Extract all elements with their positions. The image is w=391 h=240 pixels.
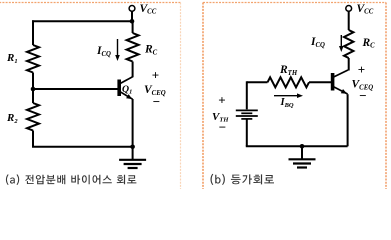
wire: bottom rail (b) [246, 145, 348, 147]
battery VTH [236, 110, 258, 146]
svg-text:+: + [152, 67, 159, 82]
terminal VCC (a) [129, 5, 135, 19]
label minus VTH [219, 119, 226, 134]
label ICQ (a) [96, 45, 111, 58]
label RC (a) [144, 44, 158, 57]
wire: R1 to node B [32, 73, 34, 90]
label VCC (a) [140, 3, 157, 16]
label plus VTH [218, 93, 225, 108]
svg-text:−: − [219, 119, 226, 134]
svg-text:−: − [359, 88, 366, 103]
transistor Q1 [119, 77, 132, 99]
resistor R2 [27, 103, 39, 131]
wire: R1 top lead [32, 20, 34, 45]
svg-text:+: + [218, 93, 225, 108]
node: VCC junction (a) [130, 19, 135, 24]
wire: base wire (b) [309, 81, 331, 83]
wire: emitter to ground (a) [132, 99, 134, 147]
ground (a) [119, 147, 146, 168]
transistor (b) [333, 70, 348, 94]
label ICQ (b) [310, 36, 325, 49]
wire: collector to RC (a) [132, 62, 134, 78]
caption (a) [6, 174, 137, 185]
label minus (a) [153, 94, 160, 109]
wire: node B to R2 [32, 89, 34, 103]
wire: VTH to RTH [247, 81, 268, 109]
node: emitter-ground junction (a) [130, 145, 135, 150]
label plus (a) [152, 67, 159, 82]
resistor RC (a) [127, 33, 139, 62]
wire: R2 bottom to ground rail [32, 131, 133, 147]
label VCEQ (a) [144, 84, 166, 97]
label R1 [6, 52, 18, 65]
label VCC (b) [357, 3, 374, 16]
wire: base wire (a) [33, 88, 118, 90]
caption (b) [211, 174, 275, 185]
label Q1 [122, 84, 132, 96]
node B: divider junction [31, 87, 36, 92]
wire: top rail (a) [32, 20, 132, 22]
ground (b) [289, 146, 316, 167]
label plus (b) [358, 62, 365, 77]
label RC (b) [362, 37, 376, 50]
wire: RC top lead (a) [132, 21, 134, 33]
terminal VCC (b) [346, 5, 352, 30]
circuit figure: voltage-divider bias and Thevenin equivalent [0, 0, 391, 189]
current arrow ICQ (a) [115, 39, 120, 61]
svg-text:−: − [153, 94, 160, 109]
node: ground junction (b) [300, 144, 305, 149]
label minus (b) [359, 88, 366, 103]
label RTH [279, 64, 298, 77]
label IBQ [280, 97, 294, 109]
resistor RTH [268, 77, 310, 87]
label R2 [6, 112, 18, 125]
current arrow IBQ [274, 93, 303, 98]
wire: emitter to rail (b) [347, 94, 349, 146]
wire: RC to collector (b) [348, 58, 350, 71]
panel (a) dashed border [0, 3, 181, 191]
resistor RC (b) [344, 30, 353, 58]
panel (b) dashed border [203, 3, 386, 191]
current arrow ICQ (b) [339, 35, 344, 52]
svg-text:+: + [358, 62, 365, 77]
resistor R1 [27, 45, 39, 73]
label VCEQ (b) [352, 79, 374, 92]
label VTH [212, 111, 229, 124]
